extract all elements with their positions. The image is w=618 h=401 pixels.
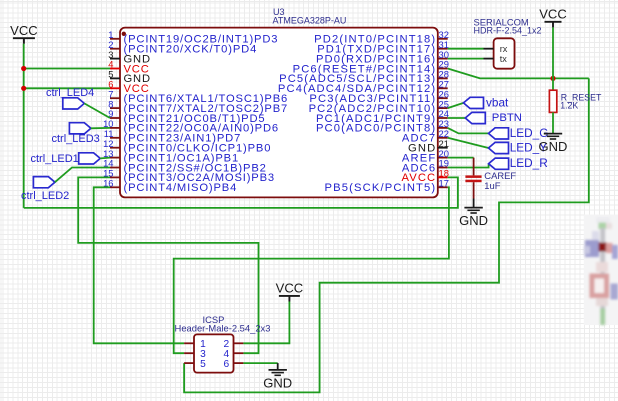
svg-text:GND: GND	[539, 139, 568, 154]
svg-text:GND: GND	[459, 213, 488, 228]
svg-text:HDR-F-2.54_1x2: HDR-F-2.54_1x2	[474, 26, 542, 36]
svg-text:vbat: vbat	[486, 96, 509, 110]
svg-text:PB5(SCK/PCINT5): PB5(SCK/PCINT5)	[325, 182, 437, 194]
svg-text:Header-Male-2.54_2x3: Header-Male-2.54_2x3	[175, 322, 271, 333]
svg-text:rx: rx	[500, 44, 508, 54]
svg-text:1.2K: 1.2K	[560, 101, 578, 111]
svg-text:ctrl_LED4: ctrl_LED4	[46, 87, 94, 99]
svg-text:LED_R: LED_R	[510, 156, 548, 170]
svg-text:6: 6	[223, 359, 229, 370]
svg-text:ATMEGA328P-AU: ATMEGA328P-AU	[273, 15, 347, 25]
svg-text:5: 5	[200, 359, 206, 370]
svg-text:VCC: VCC	[276, 281, 303, 296]
svg-text:VCC: VCC	[10, 23, 37, 38]
svg-text:GND: GND	[263, 375, 292, 390]
svg-text:1uF: 1uF	[484, 180, 500, 191]
svg-text:LED_G: LED_G	[510, 126, 549, 140]
svg-text:ctrl_LED1: ctrl_LED1	[31, 153, 79, 165]
svg-text:ctrl_LED3: ctrl_LED3	[52, 133, 100, 145]
svg-text:PBTN: PBTN	[492, 112, 522, 124]
svg-text:(PCINT4/MISO)PB4: (PCINT4/MISO)PB4	[124, 182, 238, 194]
svg-text:17: 17	[439, 178, 449, 189]
svg-text:ctrl_LED2: ctrl_LED2	[21, 190, 69, 202]
svg-text:tx: tx	[500, 54, 508, 64]
svg-text:VCC: VCC	[539, 7, 566, 22]
